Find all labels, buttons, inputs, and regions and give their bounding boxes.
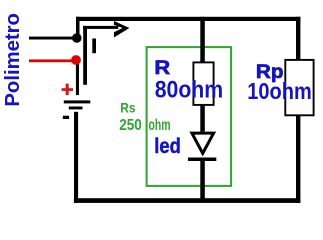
- svg-text:10ohm: 10ohm: [247, 78, 311, 104]
- wire left lower (battery - to bottom wire): [74, 112, 78, 203]
- resistor R box: [193, 62, 213, 105]
- wire left upper (top corner to black node): [76, 17, 80, 38]
- label I: [92, 39, 96, 54]
- svg-text:250: 250: [119, 117, 142, 134]
- svg-text:80ohm: 80ohm: [155, 77, 224, 104]
- battery minus sign: [63, 116, 69, 119]
- green group box around R and led: [147, 47, 232, 186]
- svg-text:Rs: Rs: [120, 99, 135, 115]
- battery plus sign: [62, 84, 73, 95]
- wire top: [76, 17, 300, 21]
- wire black probe lead: [29, 37, 76, 40]
- svg-text:led: led: [154, 134, 181, 158]
- battery B1 positive plate: [64, 100, 91, 103]
- wire middle branch lower (led cathode to bottom wire): [200, 161, 205, 202]
- wire bottom: [74, 198, 301, 203]
- LED cathode bar: [188, 158, 216, 162]
- wire right: [296, 17, 300, 203]
- current direction arrow head: [114, 21, 129, 38]
- svg-text:Polimetro: Polimetro: [2, 13, 24, 107]
- resistor Rp box: [285, 60, 313, 115]
- LED D1 triangle: [192, 133, 214, 153]
- wire middle branch upper (top wire to led): [200, 17, 205, 132]
- current direction arrow shaft: [83, 26, 118, 29]
- svg-text:ohm: ohm: [149, 117, 171, 134]
- battery B1 negative plate: [69, 107, 83, 110]
- wire red probe lead: [29, 59, 76, 62]
- wire left mid (red node to battery +): [76, 60, 79, 95]
- node red probe junction: [71, 55, 81, 65]
- node black probe junction: [72, 33, 82, 43]
